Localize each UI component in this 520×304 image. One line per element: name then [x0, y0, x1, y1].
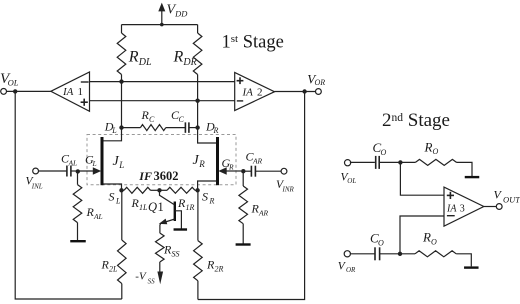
svg-text:R: R [424, 139, 433, 154]
label V_OUT [494, 188, 520, 205]
resistor R_DR [193, 33, 202, 75]
svg-text:O: O [381, 148, 387, 157]
svg-text:AR: AR [258, 209, 269, 218]
capacitor C_AR [251, 166, 255, 177]
wire J_L source lead [103, 184, 121, 190]
node R_DL to top bus [119, 79, 123, 83]
svg-text:L: L [115, 197, 121, 206]
ground below R_AR [236, 243, 251, 245]
svg-text:-V: -V [135, 270, 147, 282]
wire R_DR top lead [197, 25, 199, 33]
label -VSS [135, 270, 155, 285]
wire R_AR to ground [242, 224, 244, 244]
svg-text:R: R [422, 230, 431, 245]
terminal V_OL output left [1, 89, 7, 95]
node V_OR feedback junction [302, 89, 306, 93]
label R_1L [131, 196, 148, 212]
svg-text:OR: OR [315, 78, 326, 87]
svg-text:O: O [431, 237, 437, 246]
svg-text:2nd Stage: 2nd Stage [382, 110, 450, 131]
svg-text:O: O [433, 147, 439, 156]
svg-text:DD: DD [174, 9, 188, 19]
wire R_O top to ground [457, 162, 473, 176]
wire J_L drain lead [103, 128, 121, 141]
node VDD junction [160, 23, 164, 27]
wire Q1 emitter with arrow [159, 219, 175, 233]
svg-text:C: C [178, 115, 184, 124]
node stage2 top junction [398, 160, 402, 164]
svg-text:R: R [208, 197, 214, 206]
svg-text:IF: IF [138, 169, 152, 183]
svg-text:INR: INR [282, 185, 295, 193]
wire right feedback V_OR to bottom [198, 92, 305, 300]
terminal V_OL stage2 input top [345, 160, 351, 166]
svg-text:DL: DL [138, 57, 152, 68]
svg-text:L: L [91, 159, 96, 168]
resistor R_2R [194, 241, 203, 281]
label V_INL [26, 175, 43, 190]
wire C_C to D_R node [189, 127, 198, 129]
resistor R_1L [122, 187, 160, 193]
svg-text:AL: AL [67, 159, 77, 168]
wire S_L to R_2L [121, 190, 123, 240]
svg-text:1L: 1L [139, 203, 148, 212]
capacitor C_O bottom [375, 247, 380, 260]
wire right drain rail R_DR to D_R [197, 75, 199, 128]
wire bottom bus IA1 plus to IA2 minus [90, 100, 235, 102]
wire VDD top rail [122, 24, 198, 26]
label R_O bottom [422, 230, 437, 247]
label R_AR [251, 202, 269, 218]
wire Q1 base to ground [175, 211, 182, 229]
svg-text:C: C [149, 115, 155, 124]
capacitor C_C [185, 122, 189, 133]
terminal V_INL input left [33, 168, 39, 174]
label R_AL [86, 205, 103, 221]
svg-text:2L: 2L [109, 265, 118, 274]
ground top R_O [465, 176, 480, 178]
label Q1 [148, 200, 164, 214]
resistor R_AL [73, 185, 82, 223]
svg-text:OL: OL [8, 78, 19, 88]
label J_L [113, 154, 125, 170]
resistor R_2L [118, 240, 127, 284]
wire R_SS to -VSS arrow [157, 262, 163, 284]
label C_AL [61, 152, 77, 168]
node tail current junction [157, 188, 161, 192]
dashed box around matched JFET pair [87, 135, 236, 185]
terminal V_INR input right [281, 168, 287, 174]
wire R_2R to right feedback rail [197, 281, 199, 300]
svg-text:R: R [212, 126, 218, 135]
svg-text:OL: OL [347, 177, 356, 185]
resistor R_O bottom [415, 251, 456, 257]
label V_INR [276, 179, 295, 193]
wire J_R source lead [198, 181, 217, 190]
wire left drain rail R_DL to D_L [121, 75, 123, 128]
svg-text:INL: INL [31, 182, 43, 190]
node C_AR junction [241, 169, 245, 173]
wire left feedback V_OL to bottom [15, 91, 122, 299]
wire R_DL top lead [121, 25, 123, 33]
ground at Q1 base [174, 228, 188, 230]
svg-text:AR: AR [252, 156, 263, 165]
transistor Q1 bar [174, 202, 176, 222]
svg-text:OR: OR [346, 266, 356, 274]
wire C_O bottom to R_O [380, 253, 415, 255]
label S_R [202, 190, 214, 206]
wire top junction to IA3 plus input [400, 162, 444, 195]
resistor R_1R [160, 187, 198, 193]
wire C_O top to R_O [380, 161, 416, 163]
node C_AL junction [76, 169, 80, 173]
wire R_C to C_C [166, 127, 186, 129]
label R_SS [163, 243, 179, 259]
transistor J_R JFET right channel bar [216, 137, 219, 185]
label VDD [167, 3, 189, 19]
svg-text:O: O [378, 238, 384, 247]
label R_DL [128, 49, 152, 69]
ground bottom R_O [464, 266, 479, 268]
node S_R [195, 188, 199, 192]
label R_C [141, 108, 155, 124]
node D_L [119, 125, 123, 129]
wire V_INL to C_AL [39, 170, 67, 172]
label V_OR [307, 72, 325, 88]
label G_R [222, 156, 234, 172]
node V_OL feedback junction [13, 89, 17, 93]
svg-text:1: 1 [78, 86, 84, 98]
wire D_L node to R_C [122, 127, 141, 129]
wire R_2L to left feedback rail [121, 284, 123, 299]
svg-text:3602: 3602 [154, 169, 179, 183]
power rail VDD arrow [158, 3, 165, 25]
label R_O top [424, 139, 439, 156]
wire IA3 output [484, 206, 497, 208]
wire J_R gate lead [218, 167, 241, 175]
wire IA2 output to V_OR [275, 91, 316, 93]
op-amp IA3 [444, 187, 484, 226]
svg-text:IA: IA [242, 87, 254, 99]
svg-text:R: R [198, 159, 205, 169]
node D_R [195, 125, 199, 129]
svg-text:IA: IA [62, 86, 74, 98]
svg-text:S: S [202, 190, 208, 204]
svg-text:Q: Q [148, 200, 157, 214]
svg-text:R: R [128, 49, 139, 66]
transistor J_L JFET left channel bar [101, 137, 104, 185]
svg-text:DR: DR [182, 57, 196, 68]
label D_L [104, 119, 117, 135]
label C_O bottom [370, 231, 384, 248]
wire J_L gate lead [78, 167, 101, 175]
node S_L [119, 188, 123, 192]
label C_AR [246, 150, 263, 166]
svg-text:OUT: OUT [503, 194, 520, 204]
label V_OR stage2 [338, 260, 356, 274]
label S_L [109, 190, 121, 206]
wire gate node to C_AR [243, 170, 251, 172]
node R_DR to bottom bus [195, 99, 199, 103]
svg-text:S: S [109, 190, 115, 204]
wire S_R to R_2R [197, 190, 199, 240]
svg-text:L: L [111, 126, 117, 135]
svg-text:R: R [228, 163, 234, 172]
label R_1R [177, 196, 194, 212]
wire Q1 collector [160, 190, 175, 204]
wire R_O bottom to ground [456, 254, 471, 267]
wire V_OR to C_O bottom [350, 253, 375, 255]
svg-text:L: L [118, 160, 124, 170]
svg-text:AL: AL [93, 212, 103, 221]
label R_2L [101, 258, 118, 274]
wire gate node to R_AL [77, 171, 79, 184]
label D_R [205, 119, 218, 135]
svg-text:V: V [494, 188, 503, 202]
wire R_AL to ground [77, 223, 79, 241]
label R_2R [206, 258, 223, 274]
resistor R_AR [239, 186, 248, 224]
op-amp IA1 [51, 72, 90, 111]
wire C_AR to V_INR [255, 170, 281, 172]
label R_DR [173, 49, 197, 69]
op-amp IA2 [235, 73, 275, 111]
wire top bus IA1 minus to IA2 plus [90, 81, 235, 83]
label J_R [193, 153, 206, 169]
label C_O top [373, 140, 387, 157]
label IF 3602 part number [138, 169, 178, 183]
wire J_R drain lead [198, 128, 217, 143]
resistor R_C [140, 125, 165, 131]
capacitor C_AL [67, 166, 71, 177]
wire IA1 output to V_OL [6, 90, 50, 92]
svg-text:IA: IA [446, 203, 457, 214]
svg-text:1st Stage: 1st Stage [222, 33, 284, 53]
resistor R_SS [156, 233, 165, 262]
terminal V_OR output right [316, 89, 322, 95]
label G_L [85, 153, 97, 169]
ground below R_AL [70, 240, 86, 242]
svg-text:SS: SS [148, 277, 156, 285]
svg-text:1: 1 [158, 200, 164, 214]
wire V_OL to C_O top [350, 161, 375, 163]
label 2nd Stage title [382, 110, 450, 131]
svg-text:SS: SS [171, 250, 179, 259]
resistor R_DL [117, 33, 126, 75]
node stage2 bottom junction [398, 252, 402, 256]
label V_OL [0, 71, 19, 88]
label 1st Stage title [222, 33, 284, 53]
svg-text:1R: 1R [185, 203, 194, 212]
wire C_AL to gate node [71, 170, 78, 172]
label V_OL stage2 [341, 171, 357, 185]
svg-text:2: 2 [257, 87, 263, 99]
svg-text:2R: 2R [214, 265, 223, 274]
wire C_AR node to R_AR [242, 171, 244, 186]
resistor R_O top [415, 159, 456, 165]
svg-text:3: 3 [460, 203, 465, 214]
terminal V_OR stage2 input bottom [344, 251, 350, 257]
capacitor C_O top [376, 156, 380, 169]
label C_C [171, 108, 184, 124]
svg-text:R: R [173, 49, 184, 66]
wire bottom junction to IA3 minus input [400, 216, 444, 254]
terminal V_OUT [496, 204, 502, 210]
